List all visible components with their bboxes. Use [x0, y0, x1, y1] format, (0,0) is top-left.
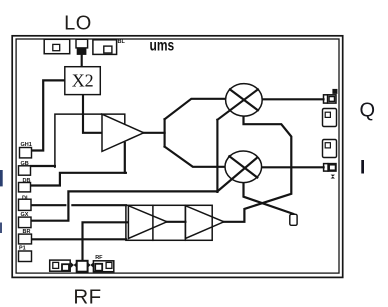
pad top BL — [93, 39, 126, 54]
right pad V1 — [323, 109, 337, 127]
frequency doubler X2 — [65, 67, 101, 95]
right pad V2 — [323, 140, 337, 158]
amp box divider 1 — [152, 205, 154, 240]
wire pad GX to I mixer — [31, 191, 218, 220]
wire pad GH to X2 left — [31, 80, 65, 150]
svg-text:ums: ums — [150, 36, 175, 54]
wire X2 output to LO amp — [83, 95, 102, 133]
wire Q mixer LO stub vertical — [216, 120, 218, 192]
Q output pad — [324, 89, 338, 103]
left pad P1 — [19, 246, 32, 262]
svg-text:LO: LO — [64, 13, 92, 35]
left pad BR — [19, 229, 32, 244]
wire amp output to splitter — [144, 132, 165, 134]
amp box divider 2 — [184, 205, 186, 240]
svg-text:RF: RF — [73, 286, 101, 307]
op-amp LO buffer — [102, 114, 144, 151]
RF amp chain box — [126, 205, 212, 240]
wire pad DL to RF amp box top (crossing gap over GX riser) — [31, 204, 126, 206]
RF pad row right pad — [93, 255, 113, 272]
left pad GH1 — [20, 142, 32, 158]
left pad DB — [19, 178, 31, 192]
svg-text:X2: X2 — [72, 71, 94, 91]
left pad GB — [19, 161, 31, 175]
wire LO pad to X2 — [81, 55, 83, 67]
svg-text:BL: BL — [118, 39, 126, 45]
left pad DL — [19, 195, 32, 210]
via bowtie left — [71, 262, 77, 267]
splitter trunk — [164, 119, 166, 146]
wire I mixer output to I pad — [261, 166, 323, 168]
mixer M1 X strokes — [217, 89, 258, 119]
wire between amp stages — [167, 221, 186, 223]
termination pad — [290, 214, 297, 225]
wire splitter upper branch to Q mixer — [165, 99, 226, 119]
RF amp stage A2 triangle — [185, 206, 224, 239]
svg-text:Q: Q — [360, 100, 376, 122]
wire bias loop pads GB/DB around amp — [31, 165, 55, 167]
svg-text:I: I — [360, 158, 365, 179]
via bowtie right — [88, 262, 94, 267]
pad LO feed — [76, 39, 88, 55]
wire splitter lower branch to I mixer — [165, 147, 226, 167]
left pad GX — [19, 212, 32, 228]
RF amp stage A1 triangle — [128, 206, 167, 239]
chip outer border — [12, 36, 343, 278]
edge mark left blue bar — [0, 170, 3, 186]
wire RF pad riser to amp chain input — [83, 222, 129, 260]
chip inner border — [16, 39, 339, 273]
wire I mixer bottom to termination — [244, 183, 294, 214]
RF pad row left pad — [50, 260, 70, 271]
pad top-left — [44, 39, 69, 53]
wire pad BR to RF amp box bottom — [31, 238, 126, 240]
I output pad — [324, 164, 336, 179]
edge mark left small dot — [0, 223, 2, 234]
wire Q mixer output to Q pad — [262, 98, 324, 100]
mixer M2 (I) — [225, 151, 262, 183]
mixer M2 X strokes — [218, 158, 257, 191]
mixer M1 (Q) — [226, 84, 263, 117]
RF feed pad — [77, 261, 88, 272]
wire Q mixer RF: mixer bottom to RF amp output — [224, 116, 291, 222]
